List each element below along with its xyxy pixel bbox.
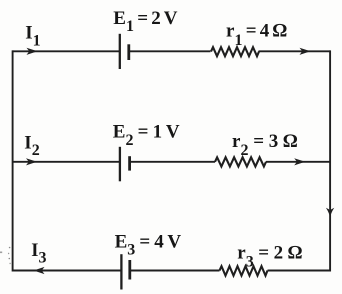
wire bottom row middle segment bbox=[130, 270, 220, 272]
svg-text:r2 = 3 Ω: r2 = 3 Ω bbox=[232, 131, 298, 159]
arrow middle right (right) bbox=[294, 158, 305, 165]
battery E2 long plate bbox=[119, 147, 121, 182]
svg-text:I1: I1 bbox=[25, 22, 40, 49]
svg-text:I3: I3 bbox=[31, 241, 46, 266]
battery E3 long plate bbox=[120, 254, 122, 289]
resistor R3 zigzag bbox=[220, 266, 268, 275]
battery E1 short plate bbox=[127, 44, 130, 60]
battery E2 short plate bbox=[128, 156, 131, 170]
arrow current I1 (right) bbox=[27, 48, 38, 55]
wire middle row middle segment bbox=[130, 161, 215, 163]
svg-text:r1 = 4 Ω: r1 = 4 Ω bbox=[226, 21, 288, 49]
wire top row left segment bbox=[13, 50, 120, 52]
wire middle row left segment bbox=[13, 161, 120, 163]
arrow right wire down bbox=[326, 208, 334, 217]
resistor R1 zigzag bbox=[211, 47, 259, 56]
wire bottom row right segment bbox=[268, 270, 331, 272]
resistor R2 zigzag bbox=[215, 157, 266, 166]
wire top row middle segment bbox=[129, 50, 211, 52]
wire left vertical bbox=[12, 50, 14, 271]
svg-text:E2 = 1 V: E2 = 1 V bbox=[113, 122, 180, 150]
wire bottom row left segment bbox=[13, 270, 122, 272]
battery E3 short plate bbox=[128, 260, 131, 280]
svg-text:E1 = 2 V: E1 = 2 V bbox=[113, 8, 177, 35]
wire right vertical bbox=[329, 50, 331, 271]
svg-text:I2: I2 bbox=[24, 133, 39, 159]
arrow current I3 (left) bbox=[34, 267, 45, 274]
wire middle row right segment bbox=[266, 161, 330, 163]
svg-text:E3 = 4 V: E3 = 4 V bbox=[115, 231, 182, 258]
battery E1 long plate bbox=[119, 34, 121, 69]
arrow top right (right) bbox=[300, 48, 311, 55]
arrow current I2 (right) bbox=[26, 158, 37, 165]
wire top row right segment bbox=[259, 50, 331, 52]
svg-text:r3 = 2 Ω: r3 = 2 Ω bbox=[237, 243, 302, 271]
